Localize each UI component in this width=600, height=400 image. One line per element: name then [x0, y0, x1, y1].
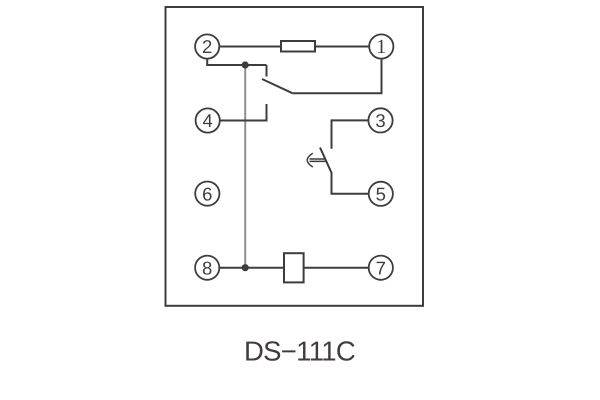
svg-text:7: 7 — [376, 257, 386, 278]
svg-text:8: 8 — [202, 257, 212, 278]
svg-text:3: 3 — [375, 110, 385, 131]
svg-text:DS−111C: DS−111C — [244, 336, 355, 367]
svg-text:2: 2 — [202, 36, 212, 57]
svg-text:4: 4 — [203, 110, 213, 131]
svg-text:1: 1 — [376, 36, 386, 58]
svg-text:5: 5 — [376, 184, 386, 205]
svg-text:6: 6 — [202, 183, 212, 204]
